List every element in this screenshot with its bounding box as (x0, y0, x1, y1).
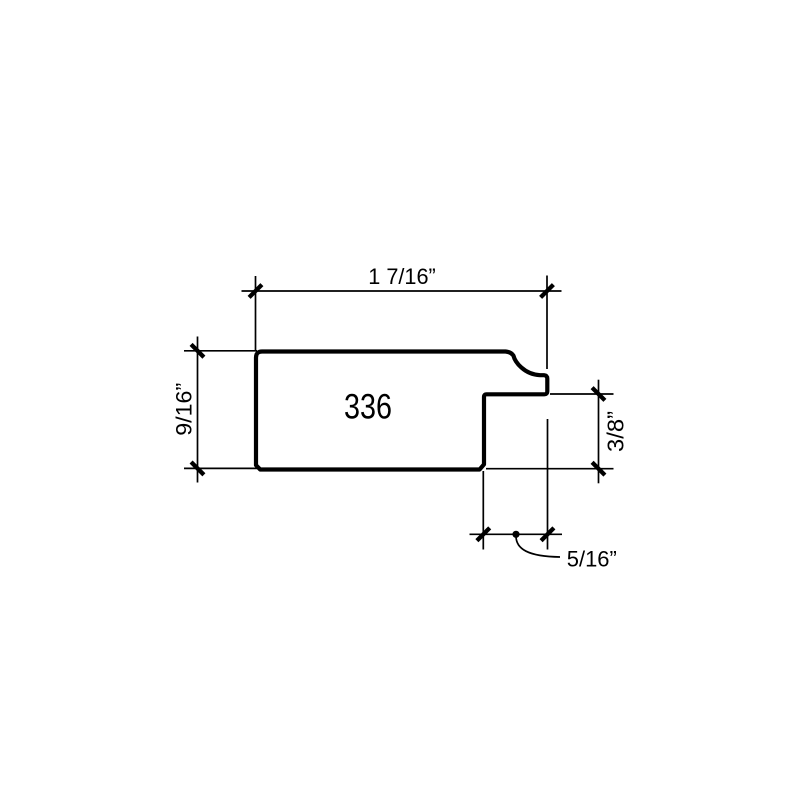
svg-text:9/16”: 9/16” (172, 383, 197, 436)
svg-text:5/16”: 5/16” (567, 547, 617, 572)
svg-text:336: 336 (344, 388, 392, 427)
svg-text:1 7/16”: 1 7/16” (368, 264, 436, 289)
svg-text:3/8”: 3/8” (603, 411, 629, 452)
